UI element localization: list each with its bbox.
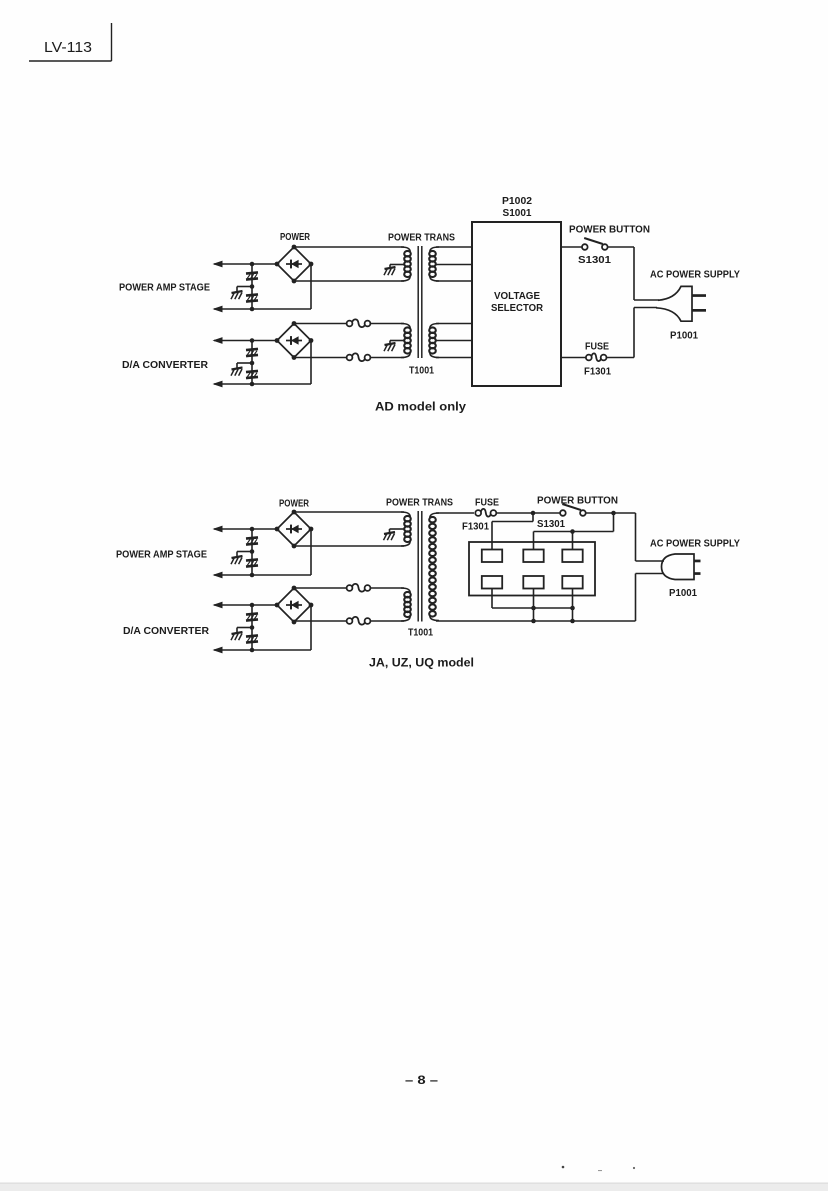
ground (power amp) bbox=[231, 291, 243, 299]
svg-text:POWER TRANS: POWER TRANS bbox=[388, 232, 455, 244]
wire AC bottom to transformer primary bbox=[294, 280, 404, 282]
wire selector tap A (to plug pin 1) bbox=[532, 513, 534, 522]
wire ground tap drop bbox=[236, 287, 238, 293]
node junction dot (selector feed) bbox=[531, 511, 536, 516]
svg-text:– 8 –: – 8 – bbox=[405, 1073, 438, 1087]
wire switch to node bbox=[586, 512, 614, 514]
capacitor C (power amp -) bbox=[246, 294, 258, 301]
wire selector to fuse bbox=[561, 357, 586, 359]
node junction dot bbox=[250, 527, 255, 532]
arrow to D/A CONVERTER (-) bbox=[213, 647, 223, 654]
wire right vertical lower bbox=[633, 308, 635, 358]
wire smoothing branch bbox=[251, 605, 253, 650]
node junction dot (after switch) bbox=[611, 511, 616, 516]
AC plug P1001 prong 2 bbox=[692, 309, 706, 312]
svg-text:LV-113: LV-113 bbox=[44, 39, 92, 56]
svg-text:P1001: P1001 bbox=[669, 588, 697, 599]
capacitor C (D/A +) bbox=[246, 613, 258, 620]
selector contact pin 2 (top row) bbox=[523, 550, 543, 563]
wire plug cord upper bbox=[636, 560, 665, 562]
ground (D/A) bbox=[231, 632, 243, 640]
wire rail return D/A CONVERTER bbox=[214, 383, 311, 385]
bottom scan band bbox=[0, 1183, 828, 1191]
svg-text:F1301: F1301 bbox=[584, 367, 611, 378]
node junction dot bbox=[250, 573, 255, 578]
AC plug P1001 prong 1 bbox=[694, 560, 701, 563]
svg-text:S1301: S1301 bbox=[578, 255, 611, 266]
svg-text:JA, UZ, UQ model: JA, UZ, UQ model bbox=[369, 656, 474, 670]
capacitor C (D/A +) bbox=[246, 349, 258, 356]
wire AC top with fuse to primary bbox=[294, 323, 351, 325]
svg-text:FUSE: FUSE bbox=[475, 498, 499, 509]
wire secondary 1 top tap to selector bbox=[436, 246, 472, 248]
wire bridge DC- drop bbox=[310, 605, 312, 650]
fuse (D/A AC bottom) bbox=[347, 353, 371, 361]
svg-text:POWER AMP STAGE: POWER AMP STAGE bbox=[119, 282, 210, 294]
svg-text:POWER AMP STAGE: POWER AMP STAGE bbox=[116, 549, 207, 561]
voltage selector P1002/S1001 box bbox=[472, 222, 561, 386]
selector contact pin 6 (bottom row) bbox=[562, 576, 582, 589]
transformer T1001 secondary winding bbox=[429, 513, 439, 621]
wire rail return POWER AMP STAGE bbox=[214, 574, 311, 576]
node junction dot bbox=[570, 619, 575, 624]
wire ground tap bbox=[237, 551, 252, 553]
wire rail V+ to POWER AMP STAGE bbox=[214, 528, 277, 530]
wire AC bottom to transformer primary bbox=[294, 545, 404, 547]
wire secondary 2 bottom tap to selector bbox=[436, 357, 472, 359]
page corner rule horizontal bbox=[29, 60, 112, 62]
transformer T1001 secondary winding 2 bbox=[429, 324, 439, 358]
wire secondary top to fuse bbox=[436, 512, 474, 514]
node junction dot bbox=[250, 625, 255, 630]
svg-text:POWER BUTTON: POWER BUTTON bbox=[569, 224, 650, 236]
ground (primary 1 tap) bbox=[384, 532, 396, 540]
AC plug P1001 prong 2 bbox=[694, 572, 701, 575]
node junction dot bbox=[570, 606, 575, 611]
wire primary 2 center tap bbox=[390, 340, 404, 342]
bridge rectifier (POWER, power amp) bbox=[275, 510, 314, 549]
wire ground tap drop bbox=[236, 628, 238, 634]
ground (primary 2 tap) bbox=[384, 343, 396, 351]
node junction dot bbox=[250, 603, 255, 608]
svg-text:AC POWER SUPPLY: AC POWER SUPPLY bbox=[650, 538, 740, 550]
wire primary 1 center tap bbox=[390, 264, 404, 266]
wire tap B to pin 2 bbox=[533, 532, 535, 550]
wire selector to switch bbox=[561, 246, 582, 248]
wire ground tap drop bbox=[236, 552, 238, 558]
switch S1301 (power button) bbox=[582, 238, 608, 250]
fuse F1301 bbox=[475, 509, 496, 517]
voltage selector block (JA/UZ/UQ) bbox=[469, 542, 595, 596]
node junction dot bbox=[250, 262, 255, 267]
wire smoothing branch bbox=[251, 264, 253, 309]
node junction dot bbox=[531, 619, 536, 624]
wire selector tap B horizontal bbox=[534, 531, 614, 533]
fuse (D/A AC bottom) bbox=[347, 617, 371, 625]
wire primary 1 center tap bbox=[390, 528, 405, 530]
fuse (D/A AC top) bbox=[347, 584, 371, 592]
fuse (D/A AC top) bbox=[347, 319, 371, 327]
arrow to D/A CONVERTER (+) bbox=[213, 602, 223, 609]
node junction dot bbox=[250, 549, 255, 554]
svg-text:VOLTAGE: VOLTAGE bbox=[494, 291, 540, 302]
node junction dot bbox=[250, 361, 255, 366]
AC plug P1001 body bbox=[662, 554, 695, 580]
wire bridge DC- drop bbox=[310, 341, 312, 385]
svg-text:D/A CONVERTER: D/A CONVERTER bbox=[122, 359, 208, 371]
page corner rule bbox=[111, 23, 113, 61]
node junction dot bbox=[531, 606, 536, 611]
wire pins 4-6 link bbox=[492, 607, 573, 609]
bridge rectifier (POWER, D/A) bbox=[275, 321, 314, 360]
wire plug cord lower bbox=[634, 307, 657, 309]
svg-text:P1001: P1001 bbox=[670, 331, 698, 342]
wire secondary 1 center tap to selector bbox=[436, 264, 472, 266]
wire pin 5 drop bbox=[533, 589, 535, 622]
wire plug cord lower bbox=[636, 573, 665, 575]
wire secondary bottom return bbox=[436, 620, 636, 622]
wire ground tap bbox=[237, 627, 252, 629]
wire right vertical upper bbox=[633, 247, 635, 300]
wire ground tap bbox=[237, 286, 252, 288]
selector contact pin 3 (top row) bbox=[562, 550, 582, 563]
bridge rectifier (POWER, power amp) bbox=[275, 245, 314, 284]
arrow to POWER AMP STAGE (+) bbox=[213, 526, 223, 533]
svg-text:AC POWER SUPPLY: AC POWER SUPPLY bbox=[650, 269, 740, 281]
wire rail V+ to POWER AMP STAGE bbox=[214, 263, 277, 265]
wire node to switch bbox=[533, 512, 560, 514]
wire right vertical upper bbox=[635, 513, 637, 561]
capacitor C (D/A -) bbox=[246, 635, 258, 642]
wire bridge DC- drop bbox=[310, 264, 312, 309]
node junction dot (tap B / pin 3) bbox=[570, 529, 575, 534]
wire secondary 1 bottom tap to selector bbox=[436, 280, 472, 282]
wire AC bottom with fuse to primary bbox=[294, 357, 351, 359]
switch S1301 (power button) bbox=[560, 504, 586, 516]
wire smoothing branch bbox=[251, 341, 253, 385]
svg-text:POWER TRANS: POWER TRANS bbox=[386, 497, 453, 509]
wire bridge DC- drop bbox=[310, 529, 312, 575]
svg-text:POWER BUTTON: POWER BUTTON bbox=[537, 495, 618, 507]
wire pin 4 drop bbox=[491, 589, 493, 609]
wire secondary 2 center tap to selector bbox=[436, 340, 472, 342]
capacitor C (D/A -) bbox=[246, 371, 258, 378]
node junction dot bbox=[250, 307, 255, 312]
arrow to POWER AMP STAGE (+) bbox=[213, 261, 223, 268]
wire tap B to pin 3 bbox=[572, 532, 574, 550]
wire node to plug lead bbox=[614, 512, 636, 514]
wire fuse to node bbox=[497, 512, 534, 514]
wire rail V+ to D/A CONVERTER bbox=[214, 340, 277, 342]
arrow to POWER AMP STAGE (-) bbox=[213, 306, 223, 313]
svg-text:P1002: P1002 bbox=[502, 196, 532, 207]
transformer T1001 primary winding 1 bbox=[401, 247, 411, 281]
ground (power amp) bbox=[231, 556, 243, 564]
transformer T1001 primary winding 1 bbox=[401, 512, 411, 546]
svg-text:F1301: F1301 bbox=[462, 522, 489, 533]
wire ground tap drop bbox=[236, 363, 238, 369]
AC plug P1001 prong 1 bbox=[692, 294, 706, 297]
wire smoothing branch bbox=[251, 529, 253, 575]
wire pin 6 drop bbox=[572, 589, 574, 622]
scan speck bbox=[598, 1170, 602, 1171]
svg-text:POWER: POWER bbox=[279, 498, 309, 510]
selector contact pin 5 (bottom row) bbox=[523, 576, 543, 589]
node junction dot bbox=[250, 338, 255, 343]
transformer T1001 primary winding 2 bbox=[401, 324, 411, 358]
node junction dot bbox=[250, 382, 255, 387]
svg-text:POWER: POWER bbox=[280, 231, 310, 243]
wire fuse to plug lead bbox=[607, 357, 635, 359]
wire selector tap B vertical bbox=[613, 513, 615, 532]
svg-text:D/A CONVERTER: D/A CONVERTER bbox=[123, 625, 209, 637]
wire switch to plug lead bbox=[608, 246, 635, 248]
transformer T1001 primary winding 2 bbox=[401, 588, 411, 621]
svg-text:S1001: S1001 bbox=[503, 208, 532, 219]
ground (primary 1 tap) bbox=[384, 267, 396, 275]
scan speck bbox=[633, 1167, 635, 1169]
selector contact pin 4 (bottom row) bbox=[482, 576, 502, 589]
wire plug cord upper bbox=[634, 299, 659, 301]
svg-text:FUSE: FUSE bbox=[585, 342, 609, 353]
wire rail return POWER AMP STAGE bbox=[214, 308, 311, 310]
bridge rectifier (POWER, D/A) bbox=[275, 586, 314, 625]
svg-text:SELECTOR: SELECTOR bbox=[491, 303, 544, 314]
fuse F1301 bbox=[586, 353, 607, 361]
wire AC top to transformer primary bbox=[294, 511, 404, 513]
transformer T1001 core bbox=[417, 246, 419, 358]
capacitor C (power amp +) bbox=[246, 537, 258, 544]
svg-text:T1001: T1001 bbox=[408, 628, 433, 639]
arrow to POWER AMP STAGE (-) bbox=[213, 572, 223, 579]
ground (D/A) bbox=[231, 368, 243, 376]
scan speck bbox=[562, 1166, 565, 1169]
selector contact pin 1 (top row) bbox=[482, 550, 502, 563]
transformer T1001 core bbox=[417, 511, 419, 622]
wire right vertical lower bbox=[635, 574, 637, 622]
node junction dot bbox=[250, 648, 255, 653]
transformer T1001 secondary winding 1 bbox=[429, 247, 439, 281]
wire AC bottom with fuse to primary bbox=[294, 620, 351, 622]
arrow to D/A CONVERTER (-) bbox=[213, 381, 223, 388]
capacitor C (power amp -) bbox=[246, 559, 258, 566]
node junction dot bbox=[250, 284, 255, 289]
wire ground tap bbox=[237, 362, 252, 364]
svg-text:S1301: S1301 bbox=[537, 519, 565, 530]
capacitor C (power amp +) bbox=[246, 272, 258, 279]
AC plug P1001 body bbox=[656, 286, 692, 321]
svg-text:T1001: T1001 bbox=[409, 366, 434, 377]
svg-text:AD model only: AD model only bbox=[375, 400, 466, 414]
wire secondary 2 top tap to selector bbox=[436, 323, 472, 325]
wire AC top to transformer primary bbox=[294, 246, 404, 248]
arrow to D/A CONVERTER (+) bbox=[213, 337, 223, 344]
wire AC top with fuse to primary bbox=[294, 587, 351, 589]
wire rail return D/A CONVERTER bbox=[214, 649, 311, 651]
wire rail V+ to D/A CONVERTER bbox=[214, 604, 277, 606]
